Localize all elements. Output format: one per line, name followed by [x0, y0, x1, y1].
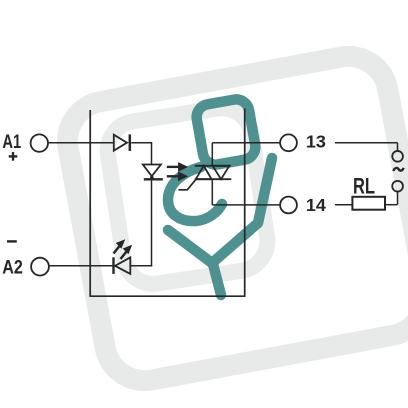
svg-text:A1: A1	[2, 132, 21, 153]
svg-text:14: 14	[306, 195, 326, 215]
svg-text:A2: A2	[2, 258, 23, 279]
svg-text:13: 13	[306, 132, 326, 152]
svg-text:RL: RL	[353, 174, 375, 199]
